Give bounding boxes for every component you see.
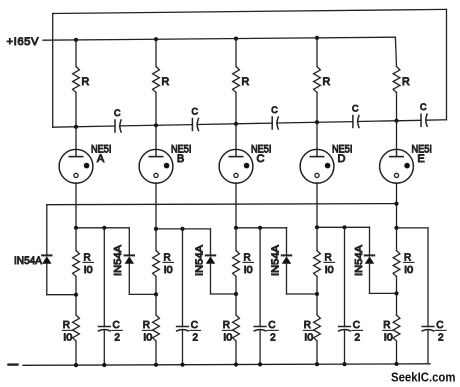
- resistor R/10 upper (stage B): [153, 229, 174, 295]
- resistor R/10 upper (stage D): [314, 227, 335, 294]
- diode 1N54A (stage C coupling): [206, 229, 215, 294]
- wire anode lead stage A: [75, 40, 77, 67]
- svg-text:2: 2: [193, 333, 199, 344]
- neon lamp NE51 B: [139, 149, 173, 183]
- wire cathode node row stage B: [156, 228, 211, 230]
- node junction +165V at column A: [74, 38, 78, 42]
- capacitor C (coupling D): [352, 104, 359, 128]
- diode 1N54A (stage E coupling): [365, 227, 374, 293]
- svg-text:I0: I0: [384, 333, 393, 344]
- svg-text:R: R: [304, 320, 311, 331]
- svg-text:C: C: [436, 320, 443, 331]
- wire cathode node row stage D: [317, 226, 370, 228]
- svg-text:I0: I0: [223, 333, 232, 344]
- svg-text:C: C: [271, 105, 278, 115]
- svg-text:R: R: [402, 76, 410, 88]
- node junction mid stage C: [234, 292, 238, 296]
- node junction mid stage A: [74, 293, 78, 297]
- wire cathode feedback rail: [47, 204, 397, 205]
- svg-text:I0: I0: [244, 265, 253, 276]
- resistor R/10 lower (stage C): [222, 294, 239, 365]
- wire negative supply rail: [23, 364, 430, 366]
- wire anode lead stage E: [395, 37, 396, 66]
- node junction coupling bus column B: [154, 123, 158, 127]
- wire anode lead stage C: [235, 39, 237, 67]
- svg-text:I0: I0: [404, 265, 413, 276]
- capacitor C/2 (stage A): [98, 228, 122, 365]
- wire anode lead stage D: [316, 38, 318, 67]
- capacitor C/2 (stage C): [254, 228, 278, 365]
- node junction mid stage E: [394, 291, 398, 295]
- wire cathode node row stage A: [76, 227, 129, 229]
- resistor R/10 lower (stage A): [62, 295, 79, 365]
- svg-text:R: R: [242, 76, 250, 88]
- svg-text:2: 2: [355, 333, 361, 344]
- capacitor C/2 (stage B): [177, 229, 201, 365]
- svg-text:IN54A: IN54A: [270, 245, 282, 276]
- node junction bottom rail C/2 B: [180, 363, 184, 367]
- node junction C/2 tap stage B: [180, 227, 184, 231]
- wire lamp anode stem D: [316, 122, 318, 149]
- svg-text:C: C: [268, 320, 275, 331]
- resistor R/10 lower (stage D): [303, 294, 320, 364]
- wire cathode mid row stage C: [211, 293, 237, 295]
- svg-text:I0: I0: [325, 265, 334, 276]
- svg-text:R: R: [164, 252, 171, 263]
- svg-text:C: C: [191, 107, 198, 117]
- svg-text:+I65V: +I65V: [7, 36, 40, 48]
- label NE51 B: [171, 144, 192, 166]
- wire cathode mid row stage B: [129, 293, 156, 295]
- svg-text:I0: I0: [304, 333, 313, 344]
- wire +165V rail: [43, 37, 395, 40]
- svg-text:C: C: [420, 102, 427, 112]
- wire top feedback rail: [53, 9, 447, 127]
- svg-text:IN54A: IN54A: [353, 245, 365, 276]
- svg-text:IN54A: IN54A: [14, 255, 43, 267]
- wire lamp anode stem A: [75, 127, 77, 150]
- resistor R (stage C): [233, 67, 250, 93]
- wire resistor to coupling bus stage B: [155, 93, 157, 126]
- diode 1N54A (stage A coupling): [42, 205, 51, 295]
- svg-text:R: R: [383, 320, 390, 331]
- resistor R/10 lower (stage B): [142, 294, 159, 364]
- svg-text:R: R: [223, 320, 230, 331]
- svg-text:2: 2: [270, 333, 276, 344]
- neon lamp NE51 E: [380, 149, 414, 183]
- node junction +165V at column C: [234, 37, 238, 41]
- svg-text:C: C: [352, 104, 359, 114]
- svg-text:C: C: [191, 320, 198, 331]
- wire lamp cathode lead C: [235, 183, 237, 228]
- node junction mid stage D: [315, 292, 319, 296]
- svg-text:B: B: [177, 153, 184, 165]
- node junction cathode stage A: [74, 226, 78, 230]
- node junction cathode stage C: [234, 226, 238, 230]
- svg-text:D: D: [338, 153, 346, 165]
- wire cathode node row stage C: [236, 227, 287, 229]
- neon lamp NE51 D: [300, 149, 334, 183]
- svg-text:R: R: [325, 252, 332, 263]
- neon lamp NE51 A: [59, 149, 93, 183]
- svg-text:I0: I0: [84, 265, 93, 276]
- resistor R (stage D): [314, 67, 331, 93]
- node junction bottom rail column A: [74, 363, 78, 367]
- wire resistor to coupling bus stage A: [75, 93, 77, 127]
- resistor R/10 upper (stage C): [233, 228, 254, 294]
- node junction cathode stage E: [394, 226, 398, 230]
- node junction coupling bus column A: [74, 125, 78, 129]
- node junction +165V at column B: [154, 37, 158, 41]
- resistor R (stage E): [393, 67, 410, 93]
- node junction feedback rail at column E: [394, 202, 398, 206]
- svg-text:R: R: [84, 252, 91, 263]
- capacitor C (coupling C): [271, 105, 278, 129]
- label NE51 C: [251, 144, 272, 166]
- svg-text:R: R: [323, 76, 331, 88]
- capacitor C/2 (stage E): [422, 228, 446, 364]
- wire resistor to coupling bus stage E: [396, 93, 398, 121]
- wire cathode mid row stage E: [370, 292, 397, 294]
- node junction bottom rail C/2 C: [258, 362, 262, 366]
- node junction cathode stage B: [154, 227, 158, 231]
- resistor R/10 upper (stage E): [393, 228, 414, 294]
- capacitor C/2 (stage D): [339, 227, 363, 364]
- node junction bottom rail C/2 D: [342, 362, 346, 366]
- node junction cathode stage D: [315, 225, 319, 229]
- svg-text:C: C: [114, 108, 121, 118]
- diode 1N54A (stage D coupling): [282, 228, 291, 294]
- svg-text:R: R: [162, 76, 170, 88]
- svg-text:R: R: [63, 320, 70, 331]
- node junction +165V at column D: [315, 36, 319, 40]
- svg-text:I0: I0: [63, 333, 72, 344]
- node junction C/2 tap stage C: [258, 226, 262, 230]
- svg-text:R: R: [244, 252, 251, 263]
- svg-text:IN54A: IN54A: [112, 245, 124, 276]
- resistor R (stage B): [153, 67, 170, 93]
- svg-text:SeekIC.com: SeekIC.com: [391, 370, 456, 385]
- wire lamp anode stem C: [235, 124, 237, 150]
- wire cathode mid row stage D: [287, 293, 318, 295]
- svg-text:I0: I0: [164, 265, 173, 276]
- capacitor C (coupling B): [191, 107, 198, 131]
- node junction bottom rail column D: [315, 362, 319, 366]
- wire cathode mid row stage A: [47, 294, 76, 296]
- label NE51 A: [91, 144, 112, 166]
- capacitor C (coupling A): [114, 108, 121, 132]
- capacitor C (coupling E): [420, 102, 427, 126]
- neon lamp NE51 C: [219, 149, 253, 183]
- node junction coupling bus column D: [315, 120, 319, 124]
- svg-text:I0: I0: [143, 333, 152, 344]
- node junction bottom rail column C: [234, 362, 238, 366]
- svg-text:IN54A: IN54A: [194, 245, 206, 276]
- svg-text:2: 2: [438, 333, 444, 344]
- resistor R/10 lower (stage E): [383, 293, 400, 364]
- diode 1N54A (stage B coupling): [125, 228, 134, 295]
- minus terminal: [9, 363, 18, 365]
- node junction coupling bus column C: [234, 122, 238, 126]
- resistor R (stage A): [73, 67, 90, 93]
- wire resistor to coupling bus stage D: [316, 93, 318, 123]
- label NE51 D: [332, 144, 353, 166]
- svg-text:E: E: [417, 153, 424, 165]
- resistor R/10 upper (stage A): [73, 228, 94, 295]
- wire lamp cathode lead A: [75, 183, 77, 228]
- wire lamp cathode lead D: [316, 183, 318, 227]
- node junction mid stage B: [154, 292, 158, 296]
- wire lamp anode stem B: [155, 125, 157, 149]
- label NE51 E: [412, 144, 433, 166]
- node junction C/2 tap stage A: [102, 226, 106, 230]
- svg-text:C: C: [353, 320, 360, 331]
- wire lamp cathode lead E: [396, 183, 398, 228]
- wire lamp anode stem E: [396, 121, 398, 150]
- svg-text:C: C: [257, 153, 265, 165]
- svg-text:R: R: [143, 320, 150, 331]
- node junction bottom rail C/2 A: [102, 363, 106, 367]
- node junction bottom rail column E: [394, 362, 398, 366]
- svg-text:R: R: [404, 252, 411, 263]
- wire cathode node row stage E: [397, 227, 429, 229]
- svg-text:A: A: [97, 153, 105, 165]
- wire anode lead stage B: [155, 39, 157, 66]
- wire resistor to coupling bus stage C: [235, 93, 237, 124]
- svg-text:C: C: [113, 320, 120, 331]
- node junction C/2 tap stage D: [342, 225, 346, 229]
- wire lamp cathode lead B: [155, 183, 157, 229]
- svg-text:2: 2: [114, 333, 120, 344]
- node junction bottom rail column B: [154, 363, 158, 367]
- node junction coupling bus column E: [394, 119, 398, 123]
- svg-text:R: R: [82, 76, 90, 88]
- wire anode coupling bus: [53, 120, 447, 127]
